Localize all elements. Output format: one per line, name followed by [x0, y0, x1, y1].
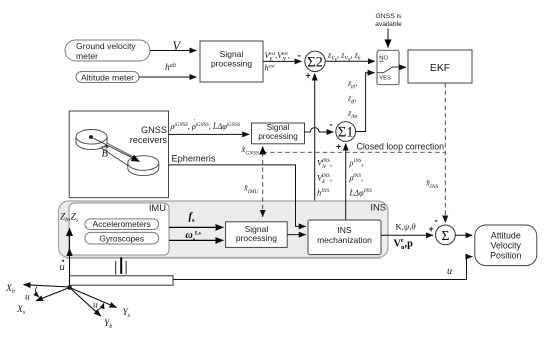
- svg-text:-: -: [435, 216, 438, 227]
- angle: u between Yb and Ys: [93, 301, 104, 312]
- block: INS mechanization: [308, 220, 381, 255]
- wire: ephemeris to INS mechanization: [169, 165, 306, 227]
- wire: INS velocity outputs up to sum2: [314, 74, 316, 221]
- svg-text:IMU: IMU: [149, 202, 166, 213]
- svg-text:u: u: [447, 266, 452, 277]
- svg-text:Ground velocity: Ground velocity: [76, 41, 136, 51]
- wire: altitude meter to signal processing 1, label h alt: [139, 63, 197, 77]
- svg-text:available: available: [375, 21, 402, 28]
- svg-text:processing: processing: [236, 233, 277, 243]
- svg-text:Position: Position: [490, 250, 521, 260]
- svg-text:-: -: [298, 51, 301, 62]
- svg-text:Σ1: Σ1: [338, 125, 354, 141]
- block: GNSS receivers: [69, 111, 168, 198]
- wire: signal processing 3 to INS mechanization: [287, 234, 306, 236]
- axis: Ys: [70, 288, 131, 320]
- axis: Yb: [70, 288, 113, 331]
- icon: vibration isolator mount: [116, 257, 126, 274]
- region: IMU+INS gray band: [59, 201, 389, 258]
- block: switch NO/YES: [377, 50, 399, 84]
- svg-text:receivers: receivers: [130, 135, 168, 145]
- svg-text:Gyroscopes: Gyroscopes: [99, 234, 144, 244]
- summing junction sum2: [305, 51, 325, 71]
- icon: antenna baseline drawing (two disks with B vector): [76, 130, 159, 176]
- svg-text:B: B: [102, 149, 109, 160]
- svg-text:Ephemeris: Ephemeris: [172, 154, 216, 164]
- wire: ground velocity meter to signal processing 1, label V: [150, 39, 197, 53]
- svg-text:+: +: [429, 224, 434, 234]
- summing junction sum1: [336, 122, 356, 142]
- label: u dot: [60, 260, 65, 273]
- svg-text:meter: meter: [76, 51, 98, 61]
- svg-text:u: u: [25, 293, 30, 303]
- block: IMU box: [69, 202, 169, 255]
- svg-text:Σ: Σ: [441, 228, 449, 243]
- angle: u between Xb and Xs: [25, 287, 39, 303]
- block: EKF: [408, 50, 472, 83]
- svg-text:+: +: [306, 71, 311, 81]
- block: signal processing 3: [226, 222, 288, 248]
- wire: sum3 to attitude box: [455, 234, 472, 236]
- svg-text:u: u: [93, 301, 98, 311]
- svg-text:INS: INS: [337, 225, 352, 235]
- wire: dashed closed loop correction horizontal: [263, 151, 446, 153]
- label: INS range outputs rho rhodot Ldphi: [349, 158, 373, 197]
- wire: sum1 output up to switch YES input, labels z rho z rhodot z dphi: [347, 73, 375, 132]
- wire: dashed x_GNSS up into signal processing 2: [241, 144, 263, 156]
- svg-text:Σ2: Σ2: [307, 54, 323, 70]
- svg-text:Attitude: Attitude: [491, 230, 521, 240]
- label: GNSS is available: [375, 13, 402, 28]
- svg-text:u: u: [60, 262, 65, 273]
- wire: signal processing 2 to sum1 with hop over vertical line: [305, 128, 334, 132]
- axis: Xs: [16, 288, 70, 317]
- summing junction sum3: [436, 225, 456, 245]
- axis: Z vertical with double arrowheads: [66, 228, 72, 288]
- block: altitude meter: [76, 72, 139, 83]
- block: attitude velocity position: [475, 225, 537, 266]
- wire: INS range outputs up to sum1: [345, 144, 347, 221]
- svg-text:NO: NO: [379, 56, 388, 62]
- block: platform bar: [70, 276, 174, 285]
- svg-text:GNSS: GNSS: [141, 125, 167, 135]
- wire: signal processing 1 to sum2, labels VEest VNest hest: [263, 51, 302, 73]
- wire: sum2 to switch, label zVE zVN zh: [325, 51, 375, 63]
- wire: EKF dashed feedback down to sum3 (x_INS): [425, 83, 445, 223]
- wire: u line from platform to attitude box: [173, 257, 472, 280]
- wire: GNSS available down into switch: [387, 29, 389, 48]
- svg-text:EKF: EKF: [430, 63, 450, 74]
- node: origin of body axes: [67, 285, 72, 290]
- svg-text:Signal: Signal: [220, 49, 244, 59]
- wire: INS mechanization to sum3, labels K psi theta and V p: [381, 222, 433, 252]
- svg-text:mechanization: mechanization: [317, 235, 372, 245]
- wire: IMU f_s to signal processing 3: [169, 212, 223, 228]
- svg-text:processing: processing: [258, 132, 298, 141]
- svg-text:GNSS is: GNSS is: [375, 13, 402, 20]
- block: ground velocity meter: [65, 40, 150, 61]
- svg-text:Κ,ψ,θ: Κ,ψ,θ: [396, 222, 417, 232]
- svg-text:+: +: [336, 142, 341, 152]
- wire: GNSS receivers to signal processing 2, label rho rhodot Ldphi GNSS: [169, 118, 250, 135]
- svg-text:Accelerometers: Accelerometers: [93, 219, 151, 229]
- svg-text:Signal: Signal: [267, 123, 290, 132]
- svg-text:Altitude meter: Altitude meter: [81, 72, 134, 82]
- svg-text:YES: YES: [379, 75, 391, 81]
- block: signal processing 1: [200, 41, 263, 82]
- block: gyroscopes: [85, 232, 159, 244]
- wire: dashed x_IMU down into signal processing 3: [243, 152, 263, 217]
- svg-text:Vne,p: Vne,p: [394, 237, 414, 251]
- svg-text:-: -: [330, 120, 333, 131]
- wire: switch to EKF: [399, 66, 406, 68]
- block: signal processing 2: [252, 123, 305, 144]
- vector B from left antenna to right antenna: [89, 135, 139, 161]
- label: INS velocity outputs VN VE h: [317, 158, 332, 198]
- svg-text:Closed loop correction: Closed loop correction: [357, 142, 445, 152]
- wire: IMU omega to signal processing 3: [169, 230, 223, 242]
- axis: Xb: [5, 284, 70, 295]
- svg-text:INS: INS: [370, 202, 386, 213]
- svg-text:Velocity: Velocity: [491, 240, 522, 250]
- svg-text:processing: processing: [211, 59, 252, 69]
- block: accelerometers: [85, 219, 159, 230]
